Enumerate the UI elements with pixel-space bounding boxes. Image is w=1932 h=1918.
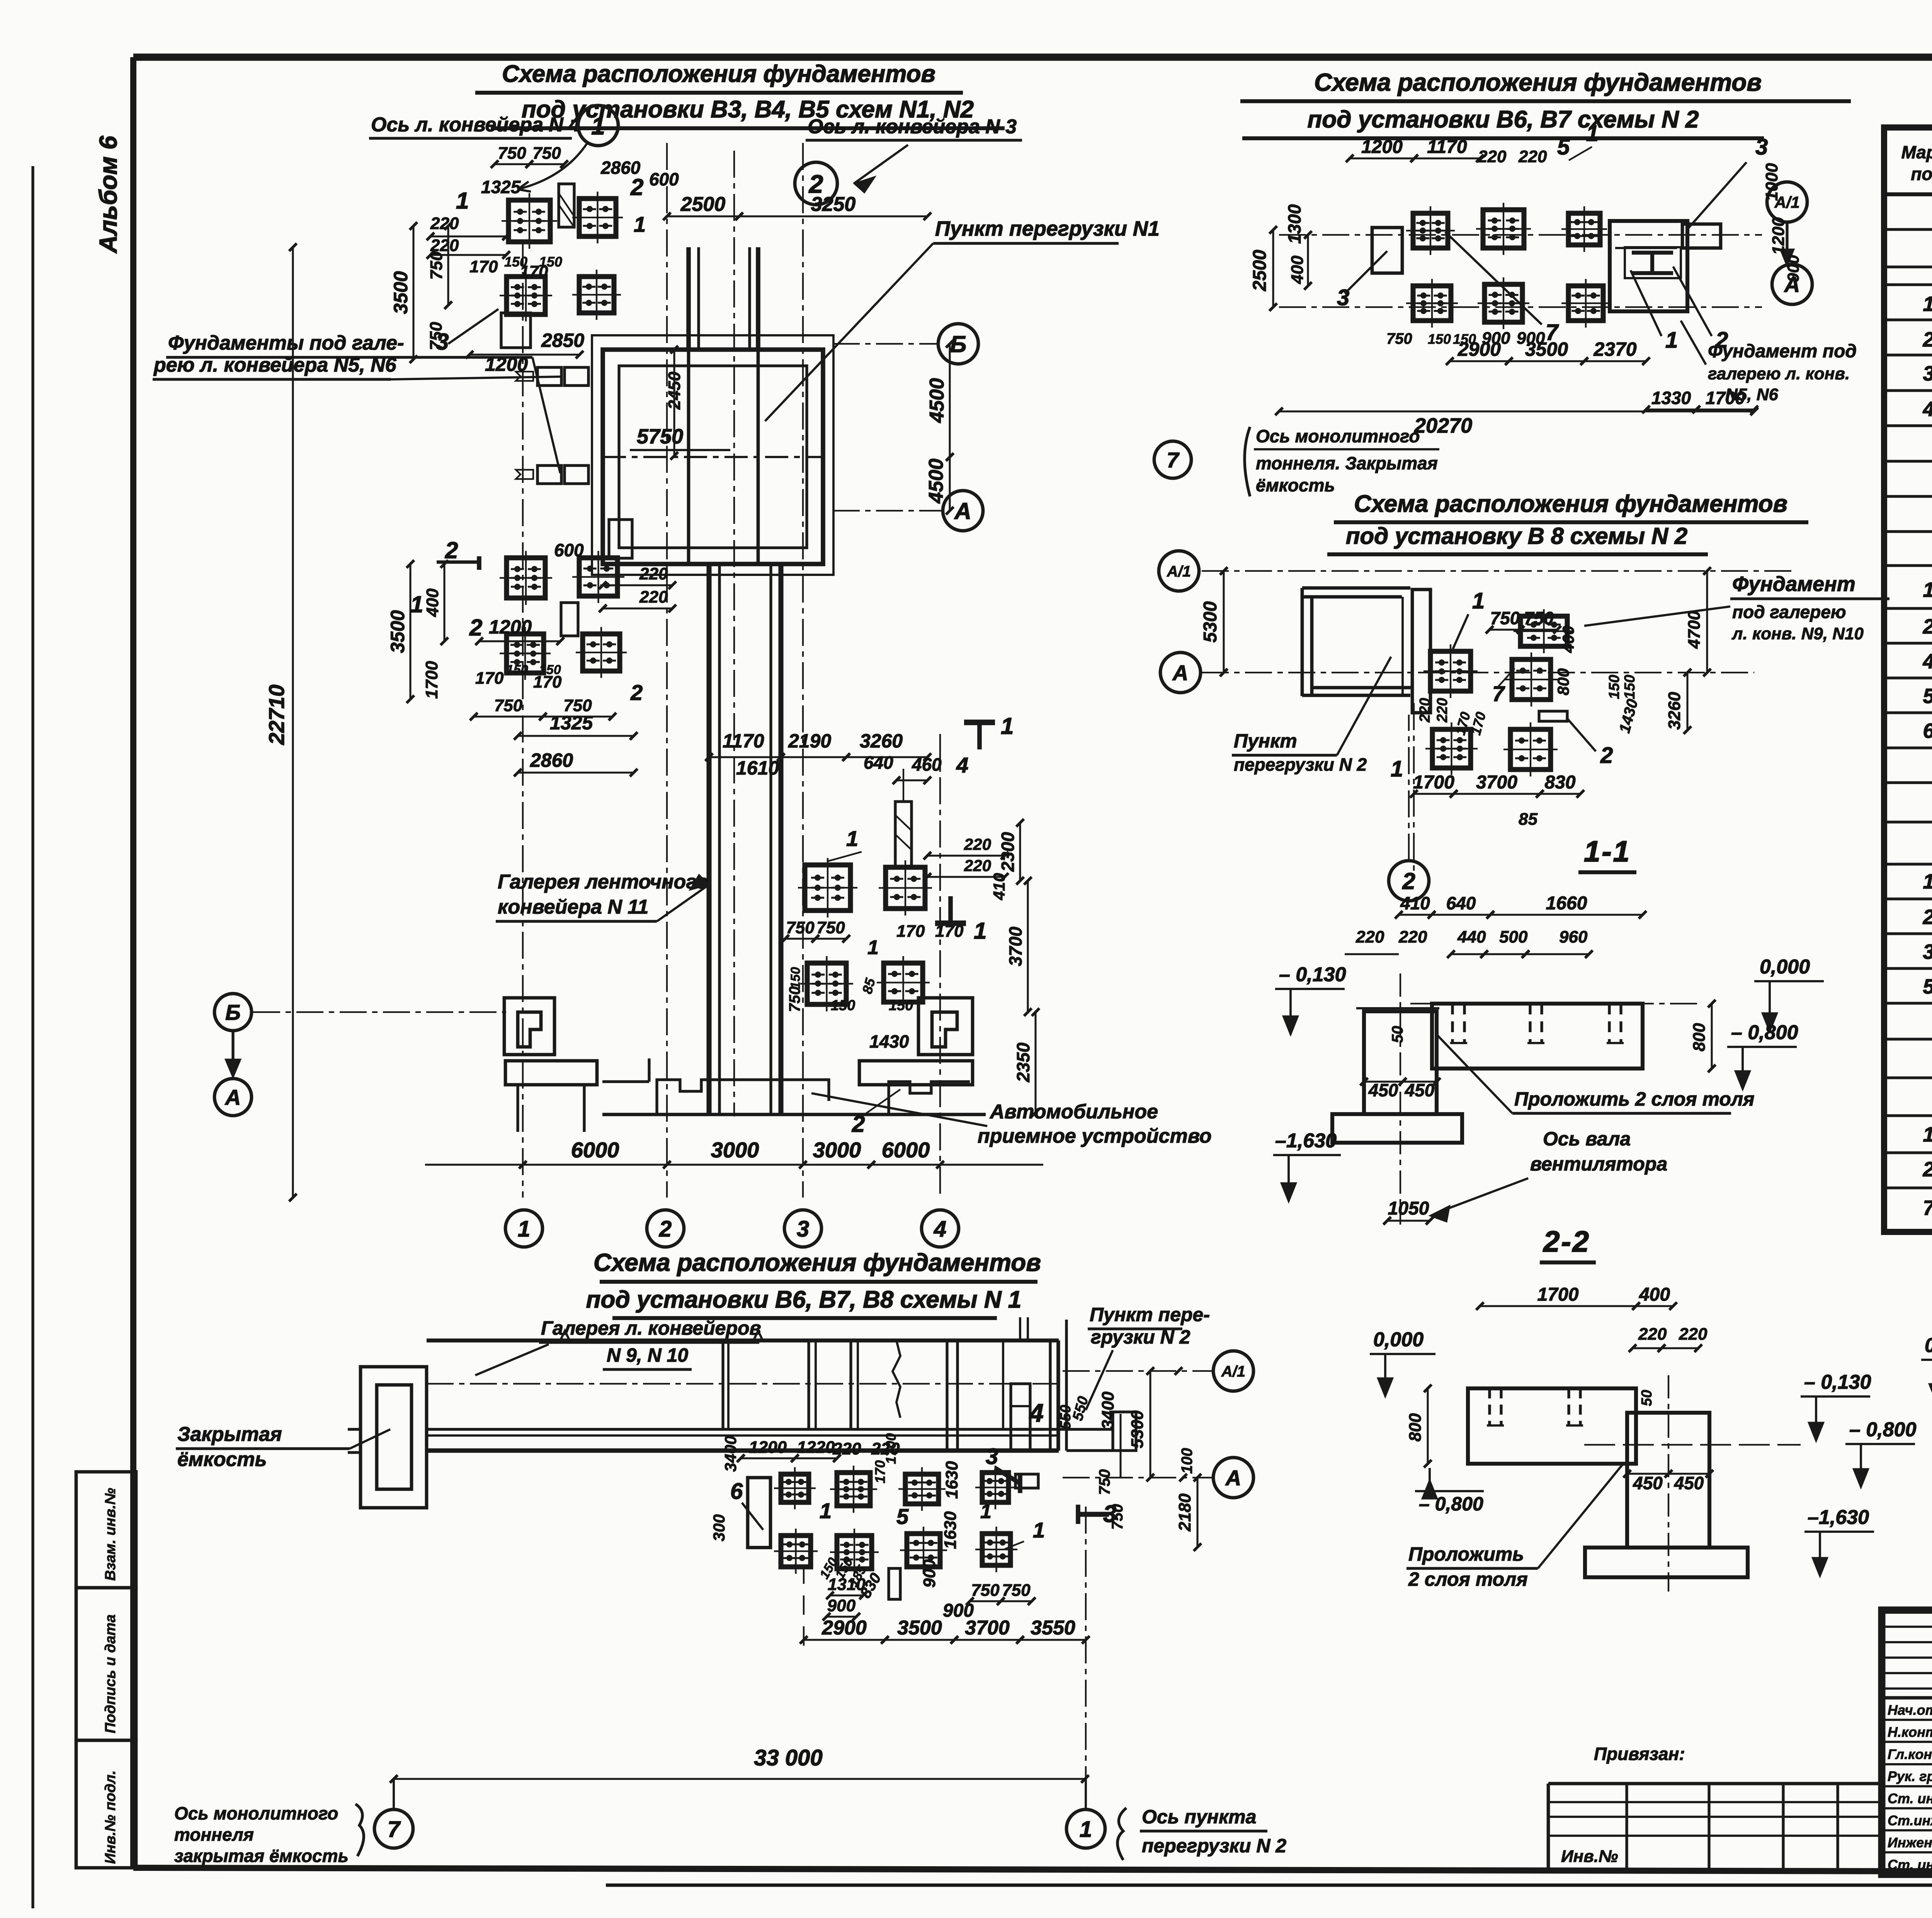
plan C axes [1202, 571, 1793, 673]
P-block left [504, 998, 554, 1055]
svg-text:7: 7 [388, 1817, 401, 1842]
column hatched [895, 769, 912, 867]
svg-text:под галерею: под галерею [1732, 602, 1846, 622]
label 1 1325 lower [410, 591, 643, 776]
svg-text:1: 1 [1923, 292, 1932, 316]
plan B label 1 2 [1631, 267, 1728, 353]
label 2 bottom band [852, 1089, 900, 1137]
dim 1170 1610 [705, 730, 931, 779]
svg-text:2: 2 [1922, 1158, 1932, 1181]
plan C fblock 1 [1423, 644, 1478, 698]
plan B label 7 [1445, 232, 1559, 345]
plan G dim 33000 [390, 1745, 1089, 1783]
svg-text:220: 220 [832, 1439, 861, 1458]
svg-text:5: 5 [1923, 975, 1932, 998]
svg-text:750: 750 [1386, 330, 1412, 347]
svg-text:1660: 1660 [1546, 893, 1587, 914]
gallery foundation pair 2 [516, 465, 588, 484]
svg-text:Схема расположения фундаментов: Схема расположения фундаментов [502, 61, 935, 87]
s11 level -0.130 [1275, 963, 1346, 1035]
svg-text:закрытая ёмкость: закрытая ёмкость [174, 1846, 349, 1866]
label fund pod galereyu [153, 332, 560, 473]
svg-text:7: 7 [1167, 448, 1180, 472]
s11 level -1.630 [1273, 1130, 1341, 1202]
svg-text:20270: 20270 [1414, 414, 1472, 437]
label 1200 lower [475, 616, 564, 645]
svg-text:2190: 2190 [788, 730, 831, 752]
svg-text:640: 640 [864, 753, 893, 773]
s22 level -1.630 [1804, 1506, 1874, 1577]
section 1-1 title [1578, 835, 1636, 872]
svg-text:750: 750 [427, 251, 446, 280]
svg-text:3000: 3000 [813, 1138, 861, 1162]
plan C bar 2 [1539, 711, 1567, 721]
svg-text:ёмкость: ёмкость [177, 1448, 267, 1471]
svg-text:Ст. инж.: Ст. инж. [1888, 1857, 1932, 1872]
svg-text:2: 2 [1922, 615, 1932, 638]
svg-text:220: 220 [1638, 1325, 1667, 1344]
svg-text:220: 220 [639, 564, 668, 583]
label galereya lentochnogo [496, 871, 709, 921]
album label [94, 136, 122, 254]
svg-text:1: 1 [591, 112, 605, 140]
svg-text:1: 1 [980, 1500, 992, 1523]
svg-text:1: 1 [1665, 328, 1678, 353]
svg-text:750: 750 [498, 144, 526, 163]
svg-text:1220: 1220 [797, 1438, 835, 1457]
plan C labels [1391, 567, 1711, 781]
svg-text:150: 150 [504, 254, 527, 270]
svg-text:830: 830 [1544, 772, 1575, 793]
plan C label punkt [1232, 657, 1391, 775]
svg-text:Пункт пере-: Пункт пере- [1090, 1304, 1210, 1325]
plan C dims bottom [1410, 703, 1584, 873]
plan G fblock r2d [975, 1527, 1017, 1572]
svg-text:900: 900 [827, 1596, 856, 1615]
svg-text:1: 1 [1586, 121, 1599, 146]
svg-text:ёмкость: ёмкость [1256, 475, 1335, 495]
svg-text:6000: 6000 [882, 1138, 930, 1162]
plan G right dims [1099, 1367, 1201, 1551]
svg-text:Ось л. конвейера N 4: Ось л. конвейера N 4 [371, 114, 580, 136]
svg-text:Галерея ленточного: Галерея ленточного [498, 871, 709, 893]
svg-text:Подпись и дата: Подпись и дата [102, 1614, 119, 1733]
plan C axis circle A1 [1159, 551, 1199, 591]
spec table header [1901, 138, 1932, 198]
s22 450 450 [1623, 1470, 1713, 1493]
title block grid [1882, 1610, 1932, 1874]
plan C fblock 4 [1503, 722, 1558, 776]
svg-text:2: 2 [1402, 868, 1415, 894]
svg-text:1: 1 [634, 212, 646, 236]
plan G label 3 flag [986, 1444, 1116, 1527]
svg-text:150: 150 [1428, 331, 1451, 347]
plan G reservoir end [348, 1367, 427, 1508]
svg-text:150: 150 [539, 254, 562, 270]
svg-text:750: 750 [1002, 1581, 1031, 1600]
plan C reservoir corner [1302, 588, 1430, 713]
axis label conveyor N4 [369, 114, 580, 138]
plan B fblock 2 [1476, 203, 1531, 255]
svg-text:2: 2 [630, 174, 643, 200]
svg-text:2500: 2500 [1250, 250, 1270, 291]
svg-text:5300: 5300 [1128, 1410, 1147, 1448]
svg-text:Схема расположения фундаменто: Схема расположения фундаментов [1314, 68, 1762, 96]
svg-text:3: 3 [1923, 940, 1932, 963]
svg-text:3500: 3500 [387, 610, 408, 653]
plan G fblock r2a [774, 1529, 818, 1574]
foundation block F3b [572, 551, 624, 603]
plan B fblock 5 [1478, 277, 1529, 329]
svg-text:750: 750 [786, 918, 815, 937]
gallery foundation pair 1 [516, 367, 588, 386]
svg-text:А: А [954, 498, 971, 524]
svg-text:150: 150 [831, 997, 855, 1014]
plan B label 3 right [1689, 134, 1768, 228]
svg-text:– 0,130: – 0,130 [1804, 1371, 1871, 1393]
svg-text:150: 150 [1606, 675, 1622, 699]
svg-text:800: 800 [1406, 1413, 1425, 1442]
svg-text:450: 450 [1405, 1080, 1435, 1100]
svg-text:220: 220 [1417, 698, 1433, 723]
svg-text:Инженер: Инженер [1888, 1835, 1932, 1850]
plan B title [1240, 68, 1851, 138]
svg-text:600: 600 [649, 169, 679, 189]
svg-text:Галерея л. конвейеров: Галерея л. конвейеров [541, 1317, 761, 1339]
svg-text:750: 750 [1490, 608, 1520, 628]
plan G label 4 [1016, 1398, 1044, 1429]
bottom long line [606, 1884, 1932, 1887]
plan G small bar r2 [889, 1568, 900, 1599]
svg-text:220: 220 [1398, 928, 1427, 946]
svg-text:2-2: 2-2 [1543, 1225, 1590, 1258]
plan G fblock r1c [898, 1467, 946, 1511]
foundation block F3a [500, 551, 552, 605]
svg-text:5: 5 [1557, 134, 1570, 160]
svg-text:1200: 1200 [1361, 137, 1403, 157]
svg-text:Рук. гр.: Рук. гр. [1888, 1769, 1932, 1784]
s11 prolozhit label [1437, 1035, 1754, 1113]
s22 level -0.130 [1584, 1371, 1871, 1445]
svg-text:6000: 6000 [571, 1138, 619, 1162]
svg-text:3400: 3400 [1099, 1391, 1117, 1429]
s22 prolozhit [1406, 1464, 1623, 1590]
s22 dim 800 [1406, 1385, 1432, 1468]
svg-text:тоннеля: тоннеля [174, 1825, 254, 1845]
svg-text:1: 1 [1472, 588, 1485, 613]
svg-text:А: А [1225, 1466, 1241, 1490]
privyazan grid [1548, 1784, 1882, 1873]
svg-text:под установки В6, В7, В8 схем: под установки В6, В7, В8 схемы N 1 [586, 1286, 1022, 1313]
svg-text:под установки В6, В7 схемы N: под установки В6, В7 схемы N 2 [1308, 106, 1699, 133]
grid line axis1 [522, 240, 524, 1198]
s11 pedestal dims [1360, 1026, 1440, 1101]
svg-text:1: 1 [1923, 870, 1932, 893]
svg-text:150: 150 [889, 997, 913, 1014]
plan B fblock 6 [1561, 279, 1610, 328]
label os monolitnogo mid [1154, 426, 1439, 496]
s22 level 0.000 [1370, 1328, 1435, 1397]
axis circle 1 bottom [505, 1210, 543, 1247]
s33 level 0.000 [1921, 1334, 1932, 1403]
plan B fblock 4 [1406, 279, 1458, 328]
svg-text:1: 1 [820, 1498, 832, 1523]
svg-text:галерею л. конв.: галерею л. конв. [1708, 364, 1850, 383]
axis circle 2 top [795, 162, 837, 205]
svg-text:поз.: поз. [1911, 164, 1932, 184]
svg-text:1: 1 [846, 826, 858, 851]
svg-text:А: А [1172, 661, 1188, 685]
svg-text:460: 460 [912, 754, 942, 775]
s22 220 dims [1629, 1325, 1708, 1352]
svg-text:Б: Б [225, 1000, 241, 1024]
grid line axis4 [939, 734, 941, 1198]
plan G fblock r2c [900, 1527, 947, 1574]
plan B ibeam [1625, 247, 1681, 278]
small block F3 [561, 603, 578, 636]
svg-text:750: 750 [532, 144, 561, 163]
svg-text:3: 3 [797, 1216, 809, 1242]
svg-text:400: 400 [1639, 1284, 1670, 1305]
svg-text:5: 5 [896, 1504, 909, 1529]
svg-text:Б: Б [950, 331, 966, 357]
plan G small rect r1 [1015, 1474, 1038, 1488]
svg-text:Нач.отд.: Нач.отд. [1888, 1702, 1932, 1718]
plan A bottom grid dims [425, 1138, 1043, 1169]
svg-text:0,000: 0,000 [1925, 1334, 1932, 1357]
svg-text:6: 6 [730, 1479, 743, 1504]
svg-text:750: 750 [427, 322, 446, 350]
svg-text:2860: 2860 [530, 749, 573, 771]
plan G title [586, 1249, 1041, 1318]
plan G axis circle 7 bottom [174, 1779, 413, 1866]
svg-text:Инв.№: Инв.№ [1561, 1847, 1618, 1866]
s11 footing big [1410, 1004, 1700, 1069]
small block below F2 [501, 313, 531, 348]
grid line axis3 [802, 143, 804, 1198]
svg-text:1: 1 [1923, 1123, 1932, 1146]
svg-text:тоннеля. Закрытая: тоннеля. Закрытая [1256, 453, 1438, 473]
svg-text:410: 410 [990, 873, 1008, 900]
svg-text:4500: 4500 [926, 378, 948, 423]
plan G cluster dims2 [823, 1559, 1036, 1621]
svg-text:2500: 2500 [680, 193, 726, 216]
svg-text:Фундаменты под гале-: Фундаменты под гале- [168, 332, 404, 354]
dim 640 460 [864, 753, 968, 784]
dims 170 lower [475, 663, 562, 691]
dims top cluster [427, 144, 679, 281]
svg-text:22710: 22710 [264, 685, 289, 745]
svg-text:под установку В 8 схемы N 2: под установку В 8 схемы N 2 [1346, 523, 1687, 549]
svg-text:220: 220 [964, 835, 991, 853]
svg-text:2: 2 [659, 1216, 672, 1242]
plan G axis circle A1 [1063, 1351, 1253, 1391]
svg-text:Фундамент под: Фундамент под [1708, 341, 1857, 362]
svg-text:3700: 3700 [1476, 772, 1517, 793]
svg-text:1700: 1700 [1537, 1284, 1579, 1305]
svg-text:– 0,800: – 0,800 [1849, 1419, 1917, 1441]
svg-text:1330: 1330 [1651, 388, 1691, 408]
P-block right [918, 998, 973, 1055]
svg-text:500: 500 [1499, 928, 1528, 946]
svg-text:800: 800 [1554, 668, 1572, 695]
svg-text:5300: 5300 [1200, 601, 1221, 642]
section 2-2 title [1540, 1225, 1596, 1262]
svg-text:220: 220 [1679, 1325, 1708, 1344]
svg-text:6: 6 [1923, 719, 1932, 742]
plan C axis circle 2 [1389, 715, 1429, 901]
svg-text:Гл.констр.: Гл.констр. [1888, 1746, 1932, 1762]
svg-text:– 0,800: – 0,800 [1731, 1021, 1798, 1044]
svg-text:1700: 1700 [1413, 772, 1454, 793]
foundation block F2a [500, 270, 552, 321]
bar between F1 [559, 184, 574, 227]
svg-text:N5, N6: N5, N6 [1725, 385, 1778, 404]
svg-text:А/1: А/1 [1167, 563, 1191, 580]
s11 level -0.800 [1727, 1021, 1798, 1090]
plan C fblock 2 [1505, 652, 1558, 707]
svg-text:2: 2 [630, 680, 643, 705]
svg-text:85: 85 [1519, 810, 1537, 829]
axis circle A right [833, 491, 983, 531]
svg-text:1200: 1200 [485, 353, 528, 375]
svg-text:Привязан:: Привязан: [1594, 1744, 1685, 1764]
svg-text:3250: 3250 [811, 193, 856, 216]
svg-text:вентилятора: вентилятора [1530, 1153, 1667, 1175]
plan B top dims [1346, 121, 1599, 166]
dim 5750 [630, 425, 730, 450]
plan G fblock r1d [975, 1466, 1015, 1509]
plan G fblock r1b [830, 1466, 877, 1513]
plan B big rect [1610, 221, 1721, 311]
svg-text:– 0,130: – 0,130 [1279, 963, 1346, 986]
section flag 1 upper [964, 713, 1014, 749]
svg-text:4: 4 [934, 1216, 946, 1242]
svg-text:2850: 2850 [541, 330, 584, 351]
plan B dims right [1762, 163, 1802, 282]
foundation block F4b [576, 627, 627, 678]
svg-text:1300: 1300 [1284, 204, 1304, 244]
title block names [1888, 1702, 1932, 1873]
axis circle 2 bottom [647, 1210, 684, 1247]
dims M right [923, 819, 1039, 1116]
svg-text:2: 2 [469, 615, 482, 640]
s11 bolts [1450, 1004, 1624, 1043]
s22 level -0.800 right [1845, 1419, 1917, 1488]
svg-text:220: 220 [430, 214, 459, 233]
svg-text:150: 150 [506, 663, 528, 677]
s22 pedestal [1585, 1375, 1748, 1592]
svg-text:3400: 3400 [721, 1436, 740, 1472]
dim 4500 x2 [925, 340, 954, 515]
foundation block M3 [800, 956, 853, 1011]
svg-text:50: 50 [1389, 1026, 1406, 1043]
svg-text:2370: 2370 [1593, 338, 1636, 360]
svg-text:750: 750 [494, 696, 523, 715]
plan B tall rect [1372, 228, 1402, 273]
svg-text:3550: 3550 [1031, 1617, 1075, 1639]
svg-text:3000: 3000 [711, 1138, 759, 1162]
s22 slab bolts [1487, 1388, 1583, 1425]
svg-text:3700: 3700 [965, 1617, 1010, 1639]
svg-text:220: 220 [1355, 928, 1384, 946]
plan G galereya label [475, 1317, 761, 1375]
svg-text:440: 440 [1457, 928, 1486, 946]
section flag 1 lower [935, 896, 986, 944]
svg-text:1700: 1700 [883, 1433, 899, 1464]
svg-text:1200: 1200 [1769, 217, 1788, 255]
svg-text:Проложить 2 слоя толя: Проложить 2 слоя толя [1514, 1088, 1754, 1110]
svg-text:750: 750 [786, 986, 803, 1012]
svg-text:750: 750 [1096, 1469, 1113, 1495]
svg-text:1: 1 [456, 188, 469, 214]
axis circle A bottom-left [214, 1079, 252, 1116]
svg-text:рею л. конвейера N5, N6: рею л. конвейера N5, N6 [153, 354, 397, 376]
plan G zakrytaya label [176, 1423, 390, 1471]
dim 2450 band [665, 346, 684, 460]
svg-text:3: 3 [986, 1444, 998, 1469]
svg-text:1630: 1630 [942, 1461, 961, 1499]
svg-text:1700: 1700 [422, 661, 441, 699]
left vertical dims A [390, 222, 452, 363]
axis label conveyor N3 [806, 116, 1022, 193]
svg-text:1: 1 [1391, 756, 1403, 781]
axis circle B right [833, 324, 978, 364]
svg-text:1610: 1610 [736, 757, 779, 779]
plan B dims bottom [1275, 329, 1758, 437]
svg-text:Н.контр.: Н.контр. [1888, 1724, 1932, 1740]
foundation block M2 [879, 860, 932, 916]
svg-text:1: 1 [974, 918, 986, 944]
plan C dim 5300 [1200, 567, 1228, 676]
svg-text:А/1: А/1 [1221, 1363, 1245, 1380]
plan B axis circle A1 [1767, 182, 1807, 267]
label 1 leader M [827, 826, 862, 861]
foundation block F1a [502, 193, 557, 249]
svg-text:перегрузки N 2: перегрузки N 2 [1142, 1835, 1286, 1857]
s22 slab [1468, 1388, 1636, 1464]
svg-text:600: 600 [554, 540, 584, 560]
svg-text:3500: 3500 [390, 271, 412, 314]
svg-text:220: 220 [1478, 147, 1507, 166]
svg-text:750: 750 [971, 1581, 1000, 1600]
label punkt peregruzki N1 [765, 217, 1160, 421]
plan C fund galereyu label [1584, 573, 1889, 643]
svg-text:Пункт: Пункт [1234, 730, 1297, 752]
svg-text:1050: 1050 [1388, 1198, 1429, 1219]
axis circle 4 bottom [922, 1210, 959, 1247]
svg-text:2900: 2900 [1458, 338, 1501, 360]
svg-text:Схема расположения фундаменто: Схема расположения фундаментов [594, 1249, 1041, 1276]
plan B axis circle A [1772, 264, 1812, 304]
svg-text:1: 1 [1033, 1518, 1045, 1542]
svg-text:750: 750 [563, 696, 592, 715]
s11 top dims [1395, 893, 1646, 919]
dim 150 1430 [831, 997, 913, 1052]
svg-text:450: 450 [1633, 1473, 1663, 1493]
svg-text:4500: 4500 [925, 459, 947, 504]
dims M row [781, 918, 964, 1012]
svg-text:1200: 1200 [749, 1438, 787, 1457]
svg-text:1: 1 [1080, 1817, 1092, 1842]
s11 level 0.000 [1754, 956, 1824, 1032]
svg-text:Альбом 6: Альбом 6 [94, 136, 122, 254]
svg-text:900: 900 [1784, 255, 1802, 282]
foundation block M4 [877, 956, 930, 1009]
plan A title [475, 61, 1005, 128]
svg-text:Пункт перегрузки N1: Пункт перегрузки N1 [935, 217, 1160, 240]
svg-text:220: 220 [1518, 147, 1547, 166]
